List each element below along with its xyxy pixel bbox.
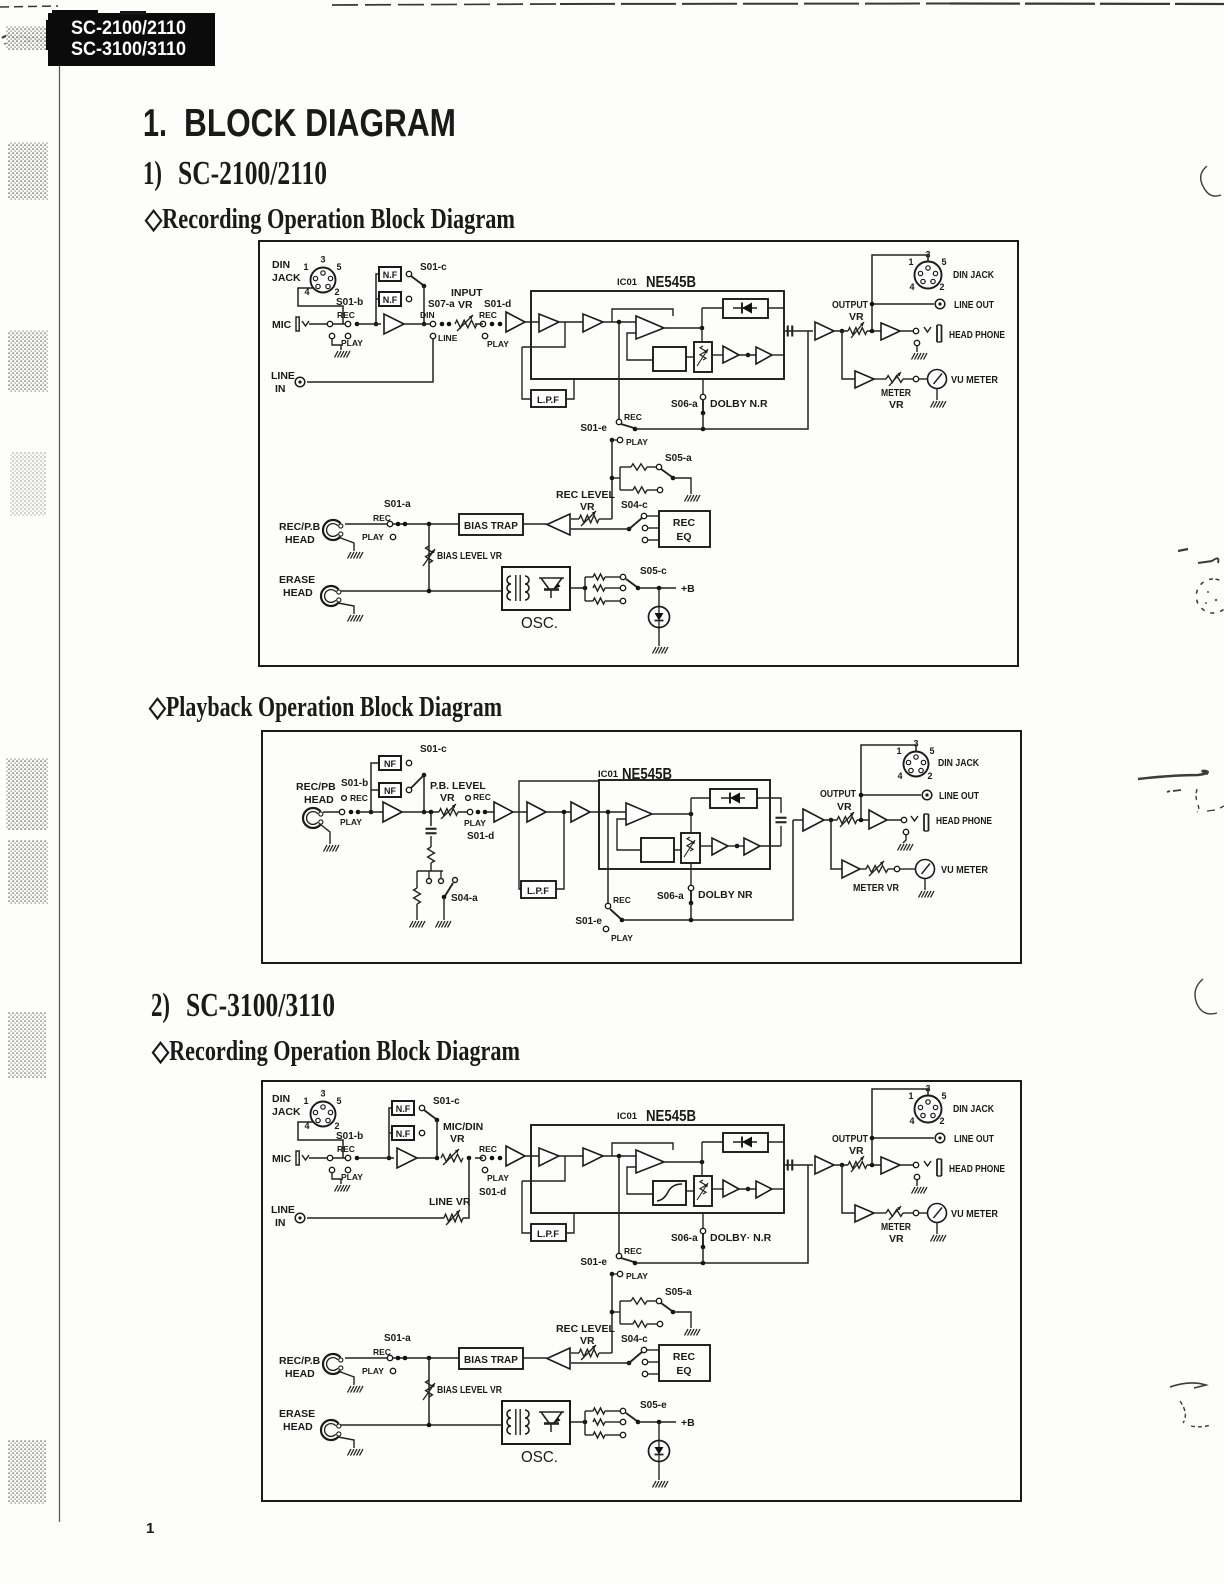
amplifier A10 (meter) — [842, 860, 860, 878]
wire dolby to IC — [702, 379, 704, 394]
filter N.F 1 — [392, 1101, 414, 1115]
title 1. BLOCK DIAGRAM — [143, 102, 456, 145]
oscillator OSC box — [502, 1401, 570, 1444]
wire VCA to A6 — [712, 1188, 723, 1190]
amplifier A1 — [397, 1148, 417, 1168]
amplifier A8 (rec) — [547, 1348, 570, 1369]
block eq-curve cell (IC) — [653, 1181, 686, 1205]
potentiometer PB LEVEL VR — [430, 780, 486, 819]
svg-text:S01-b: S01-b — [336, 297, 363, 308]
wire headphone ground — [916, 1180, 918, 1186]
amplifier A10 (headphone) — [881, 1157, 900, 1174]
wire to zener — [658, 588, 660, 607]
node DIN JACK label right — [953, 1103, 994, 1115]
svg-text:JACK: JACK — [272, 1106, 301, 1118]
node A6-A7 junction — [735, 844, 740, 849]
wire LPF out — [566, 379, 574, 399]
pin R1 contact — [647, 1298, 662, 1303]
amplifier A11 (meter) — [855, 371, 874, 388]
diode D1 zener — [649, 1441, 670, 1462]
ground S04-a — [436, 921, 452, 928]
svg-text:S04-c: S04-c — [621, 1334, 648, 1345]
switch S01-c — [411, 744, 447, 788]
capacitor C1 — [788, 326, 793, 337]
amplifier A4 — [571, 802, 590, 822]
svg-text:METER VR: METER VR — [853, 882, 899, 894]
wire line out — [870, 1136, 934, 1141]
resistor bias R4 — [593, 585, 626, 591]
switch S01-b — [336, 1131, 363, 1182]
wire meter ground — [936, 389, 938, 400]
ground below mic — [335, 1185, 351, 1192]
svg-text:BIAS LEVEL VR: BIAS LEVEL VR — [437, 1384, 502, 1396]
switch S01-e — [580, 412, 648, 447]
amplifier A1 — [383, 802, 402, 822]
svg-text:DIN: DIN — [272, 259, 290, 271]
connector J4 DIN jack out — [896, 739, 934, 782]
wire IC tap down — [618, 1156, 620, 1253]
IC U1 label — [598, 766, 672, 783]
svg-text:HEAD: HEAD — [283, 587, 313, 599]
wire S01-c to line — [435, 1120, 440, 1160]
svg-text:IC01: IC01 — [598, 769, 619, 780]
switch S01-e — [580, 1246, 648, 1281]
resistor bias R5 — [585, 1432, 626, 1438]
svg-text:HEAD: HEAD — [304, 794, 334, 806]
amplifier A5 (IC main) — [626, 803, 652, 825]
resistor R2 to ground — [414, 871, 421, 920]
wire riser to DIN — [861, 745, 916, 820]
connector J5 line out — [935, 299, 945, 309]
pin N.F 2 out — [406, 296, 411, 301]
svg-text:ERASE: ERASE — [279, 574, 315, 586]
wire to N.F filters — [357, 274, 381, 324]
node +B label — [681, 1417, 695, 1429]
node +B label — [681, 583, 695, 595]
resistor bias R5 — [585, 598, 626, 604]
wire LINE IN to line — [307, 1158, 469, 1218]
svg-text:S05-a: S05-a — [665, 1287, 692, 1298]
wire headphone ground — [916, 346, 918, 352]
wire bias trap to head — [345, 1356, 459, 1361]
diode D1 zener — [649, 607, 670, 628]
ground headphone — [898, 844, 914, 851]
block REC EQ — [659, 511, 710, 547]
ground rec head — [348, 1386, 364, 1393]
wire A5 out — [664, 326, 704, 331]
wire zener ground — [658, 1462, 660, 1480]
wire head to contacts — [323, 811, 339, 813]
wire A5 out — [652, 812, 693, 817]
transducer erase head — [321, 1420, 341, 1440]
svg-text:5: 5 — [336, 262, 341, 272]
resistor bias R4 — [593, 1419, 626, 1425]
svg-text:OUTPUT: OUTPUT — [820, 788, 856, 800]
pin N.F 2 out — [419, 1130, 424, 1135]
heading 1) SC-2100/2110 — [143, 155, 327, 192]
pin meter contact — [913, 1210, 927, 1215]
capacitor C1 — [426, 829, 437, 834]
switch S05-a lever — [661, 1303, 691, 1328]
svg-text:REC: REC — [624, 412, 642, 422]
heading Recording Operation Block Diagram 2 — [151, 1036, 520, 1067]
svg-text:2: 2 — [927, 771, 932, 781]
switch S05-a lever — [661, 469, 691, 494]
node HEAD PHONE label — [949, 329, 1005, 341]
wire VCA to dolby switch — [690, 863, 692, 885]
ground zener — [653, 1481, 669, 1488]
pin N.F 1 out — [406, 271, 411, 276]
svg-text:DIN JACK: DIN JACK — [953, 1103, 994, 1115]
wire bias trap to amp — [523, 1357, 547, 1359]
ground vu meter — [919, 891, 935, 898]
svg-text:DOLBY· N.R: DOLBY· N.R — [710, 1232, 772, 1244]
wire A3-A4 — [559, 321, 583, 323]
wire erase line — [341, 589, 502, 594]
connector J5 line out — [922, 790, 932, 800]
wire output bus — [824, 819, 869, 821]
wire A2 to IC — [475, 322, 539, 324]
wire +B — [638, 586, 676, 591]
wire A5 lower loop — [627, 333, 653, 360]
wire cap node to output amp — [808, 330, 813, 332]
switch S01-d — [479, 299, 511, 349]
potentiometer BIAS LEVEL VR — [423, 524, 502, 591]
wire head ground — [338, 1371, 354, 1385]
wire S01-c to line — [422, 286, 427, 326]
capacitor C2 — [776, 818, 787, 823]
svg-text:1): 1) — [143, 155, 162, 192]
svg-text:OUTPUT: OUTPUT — [832, 299, 868, 311]
potentiometer METER VR — [881, 1206, 911, 1245]
switch S05-a label — [665, 1287, 692, 1298]
svg-text:METER: METER — [881, 387, 911, 399]
svg-text:VR: VR — [580, 501, 595, 513]
switch S05-e — [626, 1400, 667, 1424]
node LINE IN label — [271, 370, 295, 395]
wire A1 out — [404, 323, 436, 325]
connector J4 DIN jack out — [908, 1084, 946, 1127]
potentiometer OUTPUT VR — [820, 788, 857, 827]
svg-text:REC: REC — [337, 1144, 355, 1154]
node LINE IN label — [271, 1204, 295, 1229]
node IC tap junction — [617, 1154, 622, 1159]
svg-text:REC: REC — [350, 793, 368, 803]
switch S04-c — [571, 500, 659, 543]
wire to NF filters — [358, 763, 383, 812]
svg-text:IN: IN — [275, 1217, 286, 1229]
amplifier A5 (IC main) — [636, 1150, 664, 1173]
block BIAS TRAP — [459, 514, 523, 535]
svg-text:S04-c: S04-c — [621, 500, 648, 511]
wire line out — [870, 302, 934, 307]
ground erase head — [348, 1449, 364, 1456]
resistor R2 — [620, 1321, 647, 1327]
amplifier A7 (IC) — [744, 838, 760, 855]
connector J2 mic jack — [296, 1151, 309, 1165]
switch S05-a label — [665, 453, 692, 464]
meter M1 VU — [928, 370, 947, 389]
svg-text:S01-c: S01-c — [420, 744, 447, 755]
wire VCA to A6 — [712, 354, 723, 356]
svg-text:L.P.F: L.P.F — [537, 395, 559, 406]
ground headphone — [912, 353, 928, 360]
svg-text:2: 2 — [939, 1116, 944, 1126]
node dolby junction — [701, 1261, 706, 1266]
wire bias trap to amp — [523, 523, 547, 525]
svg-text:PLAY: PLAY — [362, 1366, 384, 1376]
svg-text:S01-e: S01-e — [580, 423, 607, 434]
svg-text:HEAD PHONE: HEAD PHONE — [949, 329, 1005, 341]
node DIN JACK label right — [938, 757, 979, 769]
wire diode row — [702, 308, 784, 342]
svg-text:3: 3 — [925, 1084, 930, 1094]
svg-text:S01-e: S01-e — [575, 916, 602, 927]
switch S01-b mic contact — [327, 1155, 341, 1184]
svg-text:S06-a: S06-a — [671, 1233, 698, 1244]
IC U1 label — [617, 274, 696, 291]
svg-text:NE545B: NE545B — [646, 274, 696, 291]
wire IC tap down — [618, 322, 620, 419]
wire A4 out — [603, 321, 636, 323]
amplifier A6 (IC) — [723, 1180, 739, 1197]
switch S01-e — [575, 895, 633, 943]
svg-text:N.F: N.F — [396, 1104, 411, 1114]
svg-text:1: 1 — [146, 1520, 154, 1537]
wire A7 to right edge — [772, 354, 784, 356]
svg-text:BIAS TRAP: BIAS TRAP — [464, 521, 518, 532]
svg-text:PLAY: PLAY — [341, 338, 363, 348]
wire play bus — [635, 1165, 808, 1263]
wire osc to bias resistors — [570, 1411, 587, 1435]
wire rec level — [571, 1352, 612, 1354]
svg-text:LINE VR: LINE VR — [429, 1196, 471, 1208]
node REC/PB HEAD label — [296, 781, 336, 806]
svg-text:HEAD PHONE: HEAD PHONE — [949, 1163, 1005, 1175]
svg-text:S01-c: S01-c — [420, 262, 447, 273]
wire LPF out — [556, 812, 564, 889]
node HEAD PHONE label — [949, 1163, 1005, 1175]
wire amp to hp contact — [900, 1164, 913, 1166]
svg-text:VU METER: VU METER — [951, 374, 998, 386]
block rectifier diode (IC) — [723, 1133, 768, 1152]
node VU METER label — [941, 864, 988, 876]
wire output bus — [834, 1164, 881, 1166]
svg-text:IC01: IC01 — [617, 277, 638, 288]
node line-vr junction — [467, 1156, 472, 1161]
svg-text:PLAY: PLAY — [487, 339, 509, 349]
wire to zener — [658, 1422, 660, 1441]
wire S01-c to line — [422, 775, 427, 814]
resistor R1 — [428, 847, 435, 863]
wire S01-d out — [458, 811, 494, 813]
wire erase head ground — [338, 603, 354, 614]
svg-text:INPUT: INPUT — [451, 287, 483, 299]
svg-text:HEAD: HEAD — [285, 1368, 315, 1380]
svg-text:REC: REC — [613, 895, 631, 905]
svg-text:L.P.F: L.P.F — [527, 886, 549, 897]
header model box — [46, 10, 215, 66]
ground vu meter — [931, 401, 947, 408]
amplifier A4 (IC) — [583, 314, 603, 332]
amplifier A11 (meter) — [855, 1205, 874, 1222]
filter NF 2 — [379, 783, 401, 797]
svg-text:S01-d: S01-d — [479, 1187, 506, 1198]
pin R2 contact — [647, 487, 663, 492]
ground R2 — [410, 921, 426, 928]
wire meter ground — [924, 879, 926, 890]
svg-text:1: 1 — [908, 257, 913, 267]
wire cell to VCA — [674, 849, 681, 851]
connector J4 DIN jack out — [908, 250, 946, 293]
svg-text:LINE OUT: LINE OUT — [954, 1133, 994, 1145]
meter M1 VU — [916, 860, 935, 879]
connector J5 line out — [935, 1133, 945, 1143]
wire LPF input loop — [522, 322, 565, 399]
node A6-A7 junction — [746, 1187, 751, 1192]
svg-text:S06-a: S06-a — [657, 891, 684, 902]
switch S05-c — [626, 566, 667, 590]
connector J3 line in — [295, 377, 305, 387]
wire to N.F filters — [357, 1108, 394, 1158]
svg-text:S05-e: S05-e — [640, 1400, 667, 1411]
svg-text:BLOCK DIAGRAM: BLOCK DIAGRAM — [184, 102, 456, 145]
potentiometer REC LEVEL VR — [556, 1323, 616, 1360]
wire riser to DIN — [872, 1089, 928, 1165]
amplifier A9 (output) — [815, 322, 834, 340]
svg-text:S01-c: S01-c — [433, 1096, 460, 1107]
potentiometer MIC/DIN VR — [441, 1121, 483, 1165]
node line-out junction — [870, 1163, 875, 1168]
svg-text:EQ: EQ — [676, 1365, 691, 1377]
svg-text:REC/P.B: REC/P.B — [279, 521, 321, 533]
amplifier A7 (IC) — [756, 1181, 772, 1198]
potentiometer METER VR — [853, 861, 899, 894]
svg-text:PLAY: PLAY — [626, 437, 648, 447]
ground erase head — [348, 615, 364, 622]
node DIN JACK label right — [953, 269, 994, 281]
node OSC label — [521, 615, 558, 632]
page number — [146, 1520, 154, 1537]
svg-text:S05-c: S05-c — [640, 566, 667, 577]
ground below mic — [335, 351, 351, 358]
switch S06-a — [671, 394, 706, 429]
filter N.F 2 — [379, 292, 401, 306]
heading 2) SC-3100/3110 — [151, 987, 335, 1024]
filter L.P.F box — [531, 390, 566, 407]
wire headphone ground — [903, 835, 906, 843]
wire erase line — [341, 1423, 502, 1428]
pin meter contact — [894, 866, 915, 871]
potentiometer OUTPUT VR — [832, 299, 868, 338]
svg-text:VR: VR — [849, 1145, 864, 1157]
wire vr to meter contact — [874, 378, 913, 380]
svg-text:PLAY: PLAY — [611, 933, 633, 943]
IC U1 NE545B box — [599, 780, 770, 869]
wire diode row — [691, 798, 781, 833]
node line-out junction — [870, 329, 875, 334]
node DIN JACK label — [272, 1093, 301, 1118]
svg-text:METER: METER — [881, 1221, 911, 1233]
wire rec level — [571, 518, 612, 520]
wire S05-a common — [612, 467, 620, 490]
ground headphone — [912, 1187, 928, 1194]
wire head ground — [338, 537, 354, 551]
switch S01-c — [411, 262, 447, 288]
resistor bias R3 — [585, 574, 626, 580]
svg-text:LINE OUT: LINE OUT — [954, 299, 994, 311]
wire A4 out — [603, 1155, 636, 1157]
node MIC label — [272, 1153, 292, 1165]
wire meter tap — [842, 331, 855, 379]
svg-text:BIAS TRAP: BIAS TRAP — [464, 1355, 518, 1366]
svg-text:DOLBY NR: DOLBY NR — [698, 889, 753, 901]
amplifier A6 (IC) — [712, 838, 728, 855]
ground S05-a — [685, 495, 701, 502]
meter M1 VU — [928, 1204, 947, 1223]
resistor bias R3 — [585, 1408, 626, 1414]
filter N.F 2 — [392, 1126, 414, 1140]
pin R2 contact — [647, 1321, 663, 1326]
wire vr to meter contact — [874, 1212, 913, 1214]
switch S01-c — [424, 1096, 460, 1122]
wire IC out to cap — [784, 330, 808, 332]
svg-text:VR: VR — [580, 1335, 595, 1347]
node output node — [829, 818, 834, 823]
amplifier A4 (IC) — [583, 1148, 603, 1166]
amplifier A5 (IC main) — [636, 316, 664, 339]
potentiometer REC LEVEL VR — [556, 489, 616, 526]
svg-text:S05-a: S05-a — [665, 453, 692, 464]
svg-text:LINE OUT: LINE OUT — [939, 790, 979, 802]
wire gain cell to VCA — [686, 356, 694, 358]
node A6-A7 junction — [746, 353, 751, 358]
wire amp to hp contact — [900, 330, 913, 332]
connector J6 headphone — [911, 814, 929, 831]
svg-text:5: 5 — [941, 257, 946, 267]
svg-text:1.: 1. — [143, 102, 167, 145]
potentiometer BIAS LEVEL VR — [423, 1358, 502, 1425]
potentiometer LINE VR — [429, 1196, 471, 1225]
wire line out — [859, 793, 921, 798]
wire meter tap — [842, 1165, 855, 1213]
node OSC label — [521, 1449, 558, 1466]
svg-text:S01-e: S01-e — [580, 1257, 607, 1268]
amplifier A3 — [527, 802, 546, 822]
svg-text:1: 1 — [303, 262, 308, 272]
amplifier A9 (output) — [815, 1156, 834, 1174]
potentiometer INPUT VR — [451, 287, 483, 331]
filter L.P.F box — [531, 1224, 566, 1241]
svg-text:+B: +B — [681, 583, 695, 595]
svg-text:2: 2 — [939, 282, 944, 292]
IC U1 label — [617, 1108, 696, 1125]
svg-text:MIC: MIC — [272, 319, 292, 331]
svg-text:REC: REC — [479, 1144, 497, 1154]
svg-text:1: 1 — [303, 1096, 308, 1106]
transducer rec/pb head — [303, 808, 323, 828]
amplifier A6 (IC) — [723, 346, 739, 363]
heading Recording Operation Block Diagram — [144, 204, 515, 235]
svg-text:VU METER: VU METER — [951, 1208, 998, 1220]
svg-text:DIN JACK: DIN JACK — [953, 269, 994, 281]
node DIN JACK label — [272, 259, 301, 284]
svg-text:HEAD PHONE: HEAD PHONE — [936, 815, 992, 827]
svg-text:5: 5 — [929, 746, 934, 756]
connector J6 headphone — [924, 1159, 942, 1176]
svg-text:VR: VR — [889, 399, 904, 411]
svg-text:1: 1 — [908, 1091, 913, 1101]
